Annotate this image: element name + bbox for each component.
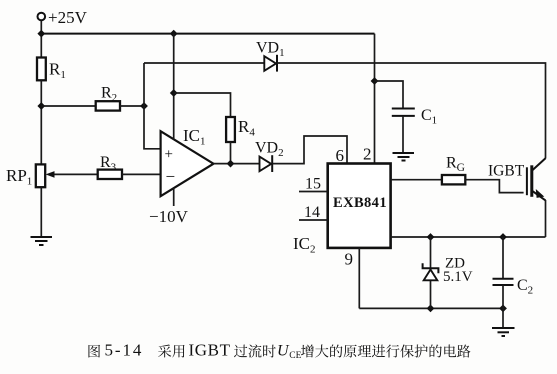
- svg-text:2: 2: [363, 145, 372, 164]
- wire: RP1 bottom to ground: [40, 187, 42, 236]
- diode VD1: [264, 56, 276, 71]
- svg-text:6: 6: [336, 146, 345, 165]
- power terminal +25V: [38, 13, 46, 21]
- wire: top +25V rail: [41, 33, 374, 35]
- resistor R4: [226, 117, 235, 142]
- wire: C1 to ground: [402, 116, 404, 152]
- node: ZD top junction: [427, 233, 435, 241]
- wiper arrow of RP1: [51, 173, 98, 175]
- svg-text:−: −: [166, 167, 176, 186]
- node: ZD bottom junction: [427, 305, 435, 313]
- resistor RG: [442, 175, 465, 184]
- wire: R2 to inverting feed vertical: [120, 105, 144, 107]
- wire: R4 top feed: [174, 93, 231, 117]
- svg-text:+: +: [165, 147, 173, 163]
- wire: IC1 V+ supply from +25V rail: [173, 34, 175, 140]
- wire: ZD branch: [430, 237, 432, 308]
- resistor R2: [96, 101, 120, 110]
- ground under C1: [393, 153, 415, 161]
- wire: C1 branch: [375, 81, 404, 109]
- wire: VD2 cathode up-over to pin 6: [272, 136, 347, 164]
- wire: emitter rail to EXB841: [391, 236, 546, 238]
- node: junction top rail to IC1 V+: [170, 30, 178, 38]
- op-amp IC1: [161, 131, 214, 196]
- node: junction R1/R2/RP1: [37, 102, 45, 110]
- wire: +25V terminal drop: [40, 21, 42, 58]
- wire: IC1 V- supply: [173, 188, 175, 206]
- node: C2 bottom junction: [499, 305, 507, 313]
- resistor R1: [37, 58, 46, 81]
- capacitor C1: [392, 109, 415, 116]
- wire: EXB841 output to RG: [391, 179, 442, 181]
- node: junction R4 feed: [170, 89, 178, 97]
- ground under C2: [492, 328, 515, 336]
- node: C2 top junction: [499, 233, 507, 241]
- svg-text:9: 9: [345, 250, 354, 269]
- caption figure title: [88, 341, 470, 362]
- wire: VD1 cathode to IGBT collector corner: [277, 63, 546, 159]
- svg-text:−10V: −10V: [149, 207, 189, 226]
- wire: C2 junction to ground: [502, 308, 504, 327]
- zener diode ZD: [424, 270, 438, 281]
- potentiometer RP1: [36, 164, 45, 187]
- svg-text:14: 14: [304, 204, 320, 221]
- pin 14 stub: [299, 219, 328, 221]
- capacitor C2: [493, 279, 514, 285]
- svg-text:EXB841: EXB841: [333, 195, 387, 211]
- pin 9 wire down: [358, 248, 360, 309]
- wire: R4 bottom to output node: [230, 142, 232, 164]
- wire: R1 bottom to node: [40, 80, 42, 164]
- svg-text:5-14: 5-14: [105, 341, 144, 360]
- svg-text:+25V: +25V: [48, 8, 88, 27]
- diode VD2: [260, 157, 272, 172]
- wire: VD1 rail vertical down to IC1 + input: [144, 63, 161, 149]
- ground under RP1: [31, 237, 53, 245]
- wire: IC1 output to VD2: [214, 163, 261, 165]
- wire: RG to IGBT gate: [465, 180, 523, 193]
- svg-text:U: U: [277, 343, 290, 360]
- transistor IGBT: [488, 158, 546, 200]
- node: junction R2 / +input vertical: [140, 102, 148, 110]
- wire: bottom rail: [359, 307, 503, 309]
- node: junction C1 branch: [371, 77, 379, 85]
- wire: R3 to IC1 - input: [122, 173, 161, 175]
- node: junction at R1 top rail: [37, 30, 45, 38]
- svg-text:5.1V: 5.1V: [443, 269, 473, 285]
- wire: emitter down to rail: [545, 200, 547, 237]
- wire: C2 branch: [502, 237, 504, 279]
- node: output junction with R4: [227, 160, 235, 168]
- resistor R3: [98, 170, 122, 179]
- wire: node to R2: [41, 105, 95, 107]
- wire: VD1 rail left segment: [144, 62, 264, 64]
- svg-text:IGBT: IGBT: [488, 163, 525, 180]
- svg-text:IGBT: IGBT: [189, 341, 231, 360]
- IC U2 EXB841 box: [328, 164, 391, 248]
- svg-text:CE: CE: [289, 351, 301, 361]
- wire: pin 2 drop from top rail: [374, 34, 376, 164]
- pin 15 stub: [299, 191, 328, 193]
- svg-text:15: 15: [305, 176, 321, 193]
